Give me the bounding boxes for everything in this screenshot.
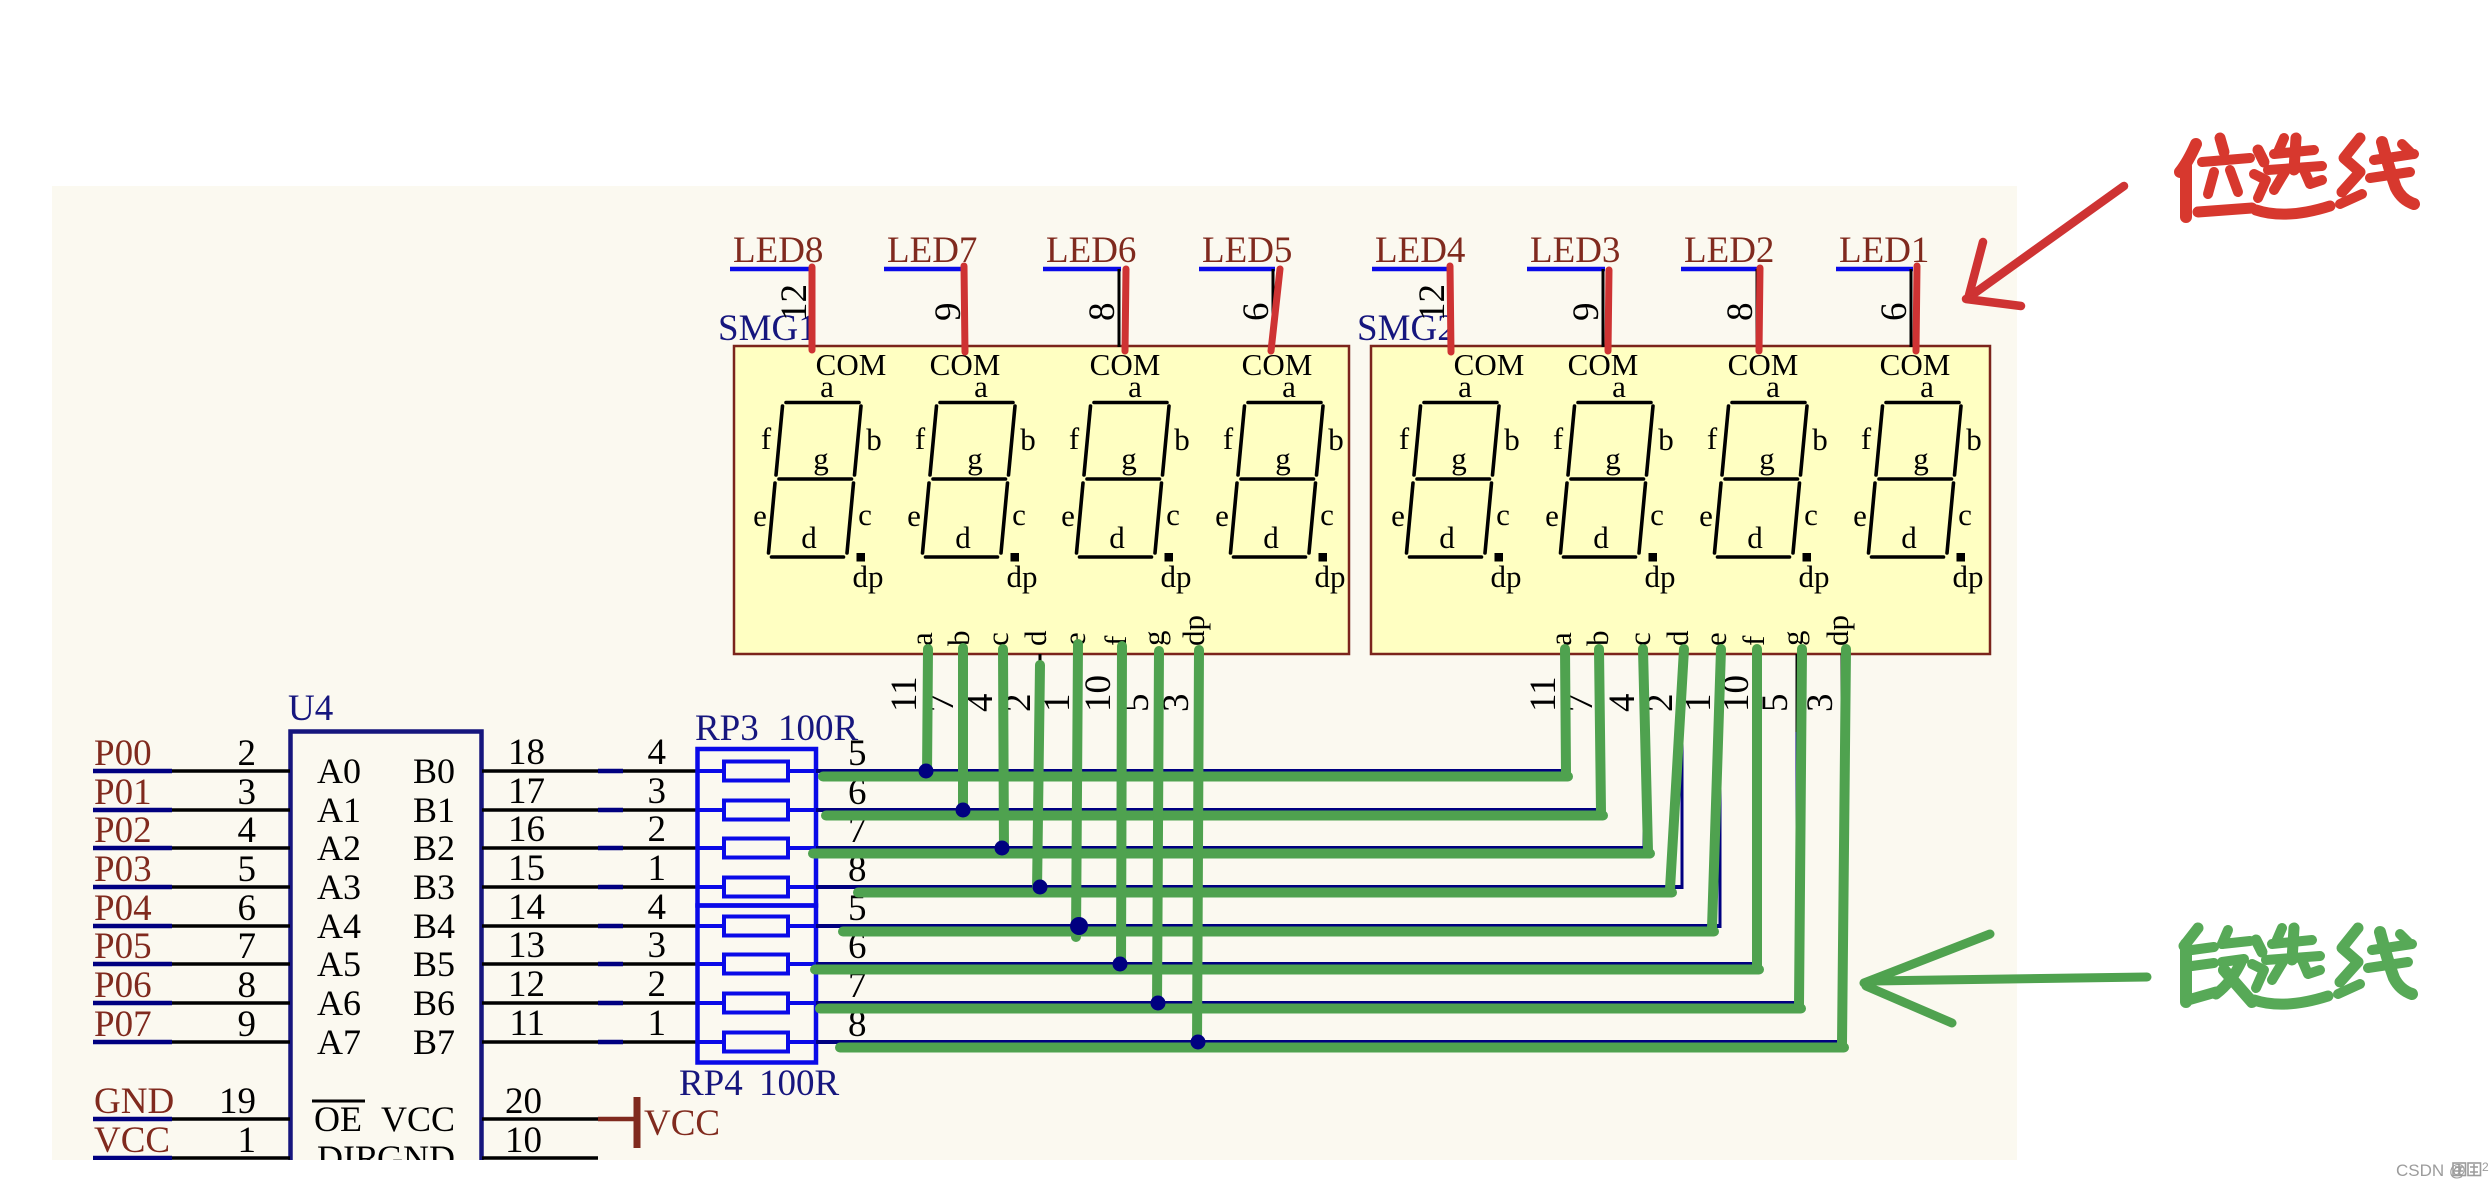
wire highlight red COM pin LED8: [809, 267, 816, 350]
wire highlight green row 5: [843, 927, 1714, 937]
svg-text:dp: dp: [1491, 559, 1522, 594]
pin stub c of SMG1: [1001, 654, 1004, 732]
resistor network RP4 body: [698, 906, 817, 1063]
pin stub g of SMG1: [1157, 654, 1160, 732]
svg-text:c: c: [1012, 497, 1026, 532]
svg-text:d: d: [1901, 520, 1917, 555]
pin stub d of SMG2: [1681, 654, 1684, 732]
svg-text:B2: B2: [413, 828, 455, 868]
svg-text:LED5: LED5: [1202, 230, 1292, 271]
svg-text:g: g: [1605, 441, 1621, 476]
svg-text:f: f: [915, 421, 926, 456]
svg-text:a: a: [904, 632, 939, 646]
svg-text:c: c: [1622, 632, 1657, 646]
svg-text:A4: A4: [317, 906, 361, 946]
svg-text:LED6: LED6: [1046, 230, 1136, 271]
svg-text:e: e: [907, 498, 921, 533]
svg-text:A1: A1: [317, 790, 361, 830]
wire U4 B1 to RP: [482, 808, 598, 812]
wire highlight red COM pin LED5: [1271, 269, 1280, 351]
svg-text:dp: dp: [1820, 615, 1855, 646]
svg-text:A5: A5: [317, 944, 361, 984]
pin stub f of SMG2: [1757, 654, 1760, 732]
wire COM pin LED6 vertical: [1118, 269, 1121, 347]
svg-text:a: a: [1282, 369, 1296, 404]
svg-text:a: a: [1766, 369, 1780, 404]
svg-text:3: 3: [238, 772, 257, 813]
svg-text:A0: A0: [317, 751, 361, 791]
svg-text:g: g: [1913, 441, 1929, 476]
resistor element RP3.1: [698, 769, 725, 773]
svg-text:f: f: [1736, 635, 1771, 646]
wire segment net row 6 horizontal: [816, 962, 1760, 966]
svg-text:GND: GND: [94, 1081, 174, 1122]
svg-text:f: f: [1553, 421, 1564, 456]
svg-text:B7: B7: [413, 1022, 455, 1062]
wire highlight green row 3: [813, 849, 1650, 859]
svg-text:4: 4: [648, 732, 667, 773]
annotation arrow red (bit-select): [1966, 186, 2124, 306]
seven-segment digit 3 with COM and segment labels: [1061, 347, 1191, 594]
wire P03 highlighted: [93, 885, 172, 890]
svg-text:e: e: [1853, 498, 1867, 533]
wire highlight green SMG1 pin g: [1157, 651, 1159, 1007]
svg-text:g: g: [1275, 441, 1291, 476]
svg-text:LED3: LED3: [1530, 230, 1620, 271]
svg-text:a: a: [1920, 369, 1934, 404]
wire highlight green SMG1 pin b: [958, 648, 968, 814]
wire U4 pin 20 to VCC port: [482, 1117, 598, 1121]
svg-text:d: d: [1747, 520, 1763, 555]
svg-text:16: 16: [508, 809, 545, 850]
svg-text:c: c: [980, 632, 1015, 646]
svg-text:a: a: [1128, 369, 1142, 404]
svg-text:d: d: [1660, 630, 1695, 646]
caption text duan-xuan-xian (green): [2184, 928, 2412, 1004]
svg-text:9: 9: [1566, 303, 1607, 322]
svg-text:B5: B5: [413, 944, 455, 984]
svg-text:9: 9: [238, 1004, 257, 1045]
wire COM pin LED3 vertical: [1602, 269, 1605, 347]
svg-text:a: a: [1543, 632, 1578, 646]
wire highlight red COM pin LED4: [1450, 266, 1451, 352]
wire highlight green SMG1 pin f: [1121, 646, 1122, 968]
junction node e row 5: [1070, 917, 1088, 935]
svg-text:3: 3: [648, 925, 667, 966]
svg-text:d: d: [1593, 520, 1609, 555]
wire P07 highlighted: [93, 1040, 172, 1045]
svg-text:P01: P01: [94, 772, 152, 813]
junction node a row 1: [919, 764, 934, 779]
page bottom mask: [0, 1160, 2491, 1184]
seven-segment digit 8 with COM and segment labels: [1853, 347, 1983, 594]
svg-text:P03: P03: [94, 849, 152, 890]
svg-text:2: 2: [2482, 1160, 2489, 1174]
wire U4 pin 10: [482, 1156, 598, 1160]
wire highlight green SMG2 pin a: [1565, 649, 1566, 773]
wire LED7 underline: [884, 267, 967, 272]
wire highlight red COM pin LED3: [1608, 270, 1609, 351]
svg-text:VCC: VCC: [644, 1103, 720, 1144]
svg-text:P04: P04: [94, 888, 152, 929]
wire U4 B5 to RP: [482, 962, 598, 966]
resistor element RP4.3: [698, 1001, 725, 1005]
svg-text:d: d: [1109, 520, 1125, 555]
wire highlight green SMG1 pin d: [1037, 665, 1040, 891]
seven-segment digit 4 with COM and segment labels: [1215, 347, 1345, 594]
svg-text:11: 11: [509, 1003, 545, 1044]
resistor network RP3 body: [698, 749, 817, 906]
svg-text:6: 6: [1236, 303, 1277, 322]
svg-text:dp: dp: [1315, 559, 1346, 594]
svg-text:b: b: [1580, 631, 1615, 647]
svg-text:f: f: [761, 421, 772, 456]
svg-text:c: c: [1804, 497, 1818, 532]
svg-text:11: 11: [1523, 676, 1564, 712]
svg-text:20: 20: [505, 1081, 542, 1122]
wire LED8 underline: [730, 267, 813, 272]
wire P06 to U4 pin 8: [172, 1001, 290, 1005]
pin stub b of SMG1: [962, 654, 965, 732]
svg-text:c: c: [1496, 497, 1510, 532]
wire SMG1 f down to row: [1119, 730, 1122, 964]
wire P00 to U4 pin 2: [172, 769, 290, 773]
svg-text:b: b: [1328, 422, 1344, 457]
pin stub e of SMG2: [1719, 654, 1722, 732]
wire U4 B6 to RP: [482, 1001, 598, 1005]
wire P01 highlighted: [93, 808, 172, 813]
svg-text:d: d: [1018, 630, 1053, 646]
wire segment net row 1 riser: [1564, 654, 1567, 771]
pin stub dp of SMG2: [1841, 654, 1844, 732]
wire segment net row 1 horizontal: [816, 769, 1567, 773]
junction node d row 4: [1033, 880, 1048, 895]
svg-text:18: 18: [508, 732, 545, 773]
svg-text:1: 1: [238, 1120, 257, 1161]
wire highlight green row 7: [820, 1004, 1801, 1014]
svg-text:g: g: [1136, 631, 1171, 647]
wire COM pin LED7 vertical: [964, 269, 967, 347]
svg-text:g: g: [1759, 441, 1775, 476]
resistor element RP4.4: [698, 1040, 725, 1044]
wire U4 B4 to RP: [482, 924, 598, 928]
svg-text:g: g: [967, 441, 983, 476]
svg-text:15: 15: [508, 848, 545, 889]
wire highlight green row 2: [826, 811, 1603, 821]
svg-text:e: e: [1061, 498, 1075, 533]
wire segment net row 4 horizontal: [816, 885, 1684, 889]
wire COM pin LED1 vertical: [1910, 269, 1913, 347]
svg-text:c: c: [1166, 497, 1180, 532]
wire highlight green SMG2 pin b: [1599, 649, 1601, 812]
svg-text:4: 4: [238, 810, 257, 851]
svg-text:f: f: [1861, 421, 1872, 456]
svg-text:1: 1: [648, 1003, 667, 1044]
wire LED4 underline: [1372, 267, 1451, 272]
pin stub a of SMG2: [1564, 654, 1567, 732]
wire P01 to U4 pin 3: [172, 808, 290, 812]
svg-text:10: 10: [505, 1120, 542, 1161]
svg-text:g: g: [813, 441, 829, 476]
wire U4 B3 to RP: [482, 885, 598, 889]
annotation arrow green (segment-select): [1864, 934, 2147, 1023]
wire highlight green SMG2 pin d: [1670, 649, 1684, 889]
svg-text:B3: B3: [413, 867, 455, 907]
wire VCC highlighted: [93, 1156, 172, 1161]
junction node b row 2: [956, 803, 971, 818]
svg-text:3: 3: [648, 771, 667, 812]
pin stub g of SMG2: [1796, 654, 1799, 732]
svg-text:4: 4: [1602, 694, 1643, 713]
svg-text:B0: B0: [413, 751, 455, 791]
power port VCC bar: [634, 1097, 641, 1148]
svg-text:A2: A2: [317, 828, 361, 868]
wire LED3 underline: [1527, 267, 1605, 272]
wire GND to U4 pin 19: [172, 1117, 290, 1121]
svg-text:g: g: [1451, 441, 1467, 476]
svg-text:6: 6: [1874, 303, 1915, 322]
svg-text:d: d: [955, 520, 971, 555]
svg-text:10: 10: [1078, 675, 1119, 712]
svg-text:f: f: [1223, 421, 1234, 456]
wire highlight green row 6: [815, 965, 1759, 975]
pin stub f of SMG1: [1119, 654, 1122, 732]
svg-text:d: d: [1439, 520, 1455, 555]
wire COM pin LED8 vertical: [810, 269, 813, 347]
wire segment net row 2 riser: [1601, 654, 1604, 810]
svg-text:P05: P05: [94, 926, 152, 967]
wire U4 B2 to RP: [482, 846, 598, 850]
svg-text:2: 2: [648, 964, 667, 1005]
svg-text:b: b: [866, 422, 882, 457]
svg-text:dp: dp: [1007, 559, 1038, 594]
pin stub b of SMG2: [1601, 654, 1604, 732]
svg-text:RP4: RP4: [679, 1063, 743, 1104]
seven-segment digit 7 with COM and segment labels: [1699, 347, 1829, 594]
wire COM pin LED5 vertical: [1272, 269, 1275, 347]
svg-text:d: d: [1263, 520, 1279, 555]
wire highlight green SMG2 pin g: [1799, 649, 1802, 1005]
wire LED5 underline: [1199, 267, 1275, 272]
svg-text:e: e: [1698, 632, 1733, 646]
junction node c row 3: [995, 841, 1010, 856]
svg-text:f: f: [1707, 421, 1718, 456]
svg-text:6: 6: [238, 888, 257, 929]
wire segment net row 5 riser: [1719, 654, 1722, 926]
seven-segment digit 6 with COM and segment labels: [1545, 347, 1675, 594]
svg-text:A3: A3: [317, 867, 361, 907]
wire highlight red COM pin LED6: [1125, 269, 1126, 351]
caption text wei-xuan-xian (red): [2180, 138, 2414, 217]
svg-text:A6: A6: [317, 983, 361, 1023]
svg-text:d: d: [801, 520, 817, 555]
svg-text:7: 7: [238, 926, 257, 967]
svg-text:e: e: [1391, 498, 1405, 533]
svg-text:e: e: [753, 498, 767, 533]
svg-text:c: c: [1320, 497, 1334, 532]
wire highlight green SMG2 pin dp: [1842, 649, 1846, 1044]
resistor element RP4.1: [698, 924, 725, 928]
wire segment net row 5 horizontal: [816, 924, 1722, 928]
wire highlight green SMG1 pin a: [927, 649, 928, 776]
svg-text:P02: P02: [94, 810, 152, 851]
wire segment net row 4 riser: [1681, 654, 1684, 887]
wire highlight green SMG2 pin f: [1752, 649, 1762, 966]
wire SMG1 dp down to row: [1197, 730, 1200, 1042]
wire P02 highlighted: [93, 846, 172, 851]
wire highlight green SMG2 pin e: [1712, 649, 1721, 928]
resistor element RP3.4: [698, 885, 725, 889]
resistor element RP4.2: [698, 962, 725, 966]
svg-text:e: e: [1545, 498, 1559, 533]
svg-text:dp: dp: [1799, 559, 1830, 594]
svg-text:dp: dp: [1953, 559, 1984, 594]
svg-text:12: 12: [508, 964, 545, 1005]
wire highlight green SMG1 pin e: [1076, 644, 1078, 937]
svg-text:dp: dp: [853, 559, 884, 594]
junction node f row 6: [1113, 957, 1128, 972]
svg-text:dp: dp: [1161, 559, 1192, 594]
svg-text:b: b: [1966, 422, 1982, 457]
svg-text:14: 14: [508, 887, 545, 928]
svg-text:2: 2: [238, 733, 257, 774]
svg-text:19: 19: [219, 1081, 256, 1122]
wire highlight red COM pin LED7: [964, 266, 965, 352]
svg-text:c: c: [1958, 497, 1972, 532]
wire SMG1 e down to row: [1078, 730, 1081, 926]
svg-text:11: 11: [884, 676, 925, 712]
svg-text:a: a: [820, 369, 834, 404]
wire P00 highlighted: [93, 769, 172, 774]
svg-text:8: 8: [1082, 303, 1123, 322]
wire segment net row 6 riser: [1757, 654, 1760, 964]
svg-text:b: b: [1020, 422, 1036, 457]
wire P04 to U4 pin 6: [172, 924, 290, 928]
wire P07 to U4 pin 9: [172, 1040, 290, 1044]
wire highlight green row 1: [823, 772, 1568, 782]
wire highlight green SMG1 pin c: [1003, 649, 1004, 853]
svg-text:OE: OE: [314, 1099, 362, 1139]
wire segment net row 7 horizontal: [816, 1001, 1799, 1005]
svg-text:2: 2: [648, 809, 667, 850]
wire P02 to U4 pin 4: [172, 846, 290, 850]
svg-text:e: e: [1699, 498, 1713, 533]
svg-text:g: g: [1775, 631, 1810, 647]
wire highlight green SMG2 pin c: [1643, 649, 1648, 851]
wire LED1 underline: [1836, 267, 1913, 272]
wire SMG1 g down to row: [1157, 730, 1160, 1003]
svg-text:COM: COM: [1568, 347, 1639, 382]
svg-text:g: g: [1121, 441, 1137, 476]
svg-text:e: e: [1215, 498, 1229, 533]
svg-text:B1: B1: [413, 790, 455, 830]
pin stub c of SMG2: [1643, 654, 1646, 732]
svg-text:b: b: [1658, 422, 1674, 457]
svg-text:A7: A7: [317, 1022, 361, 1062]
svg-text:f: f: [1069, 421, 1080, 456]
wire segment net row 7 riser: [1796, 654, 1799, 1003]
svg-text:c: c: [1650, 497, 1664, 532]
pin stub dp of SMG1: [1197, 654, 1200, 732]
wire segment net row 8 horizontal: [816, 1040, 1844, 1044]
pin stub e of SMG1: [1078, 654, 1081, 732]
schematic sheet background: [52, 186, 2017, 1160]
pin stub a of SMG1: [925, 654, 928, 732]
svg-text:RP3: RP3: [695, 708, 759, 749]
wire U4 B7 to RP: [482, 1040, 598, 1044]
svg-text:B4: B4: [413, 906, 455, 946]
wire P05 to U4 pin 7: [172, 962, 290, 966]
display module SMG2 body: [1371, 346, 1990, 654]
wire SMG1 a down to row: [925, 730, 928, 771]
svg-text:b: b: [1812, 422, 1828, 457]
wire segment net row 8 riser: [1841, 654, 1844, 1042]
svg-text:a: a: [1458, 369, 1472, 404]
svg-text:VCC: VCC: [381, 1099, 455, 1139]
svg-text:VCC: VCC: [94, 1120, 170, 1161]
svg-text:COM: COM: [1728, 347, 1799, 382]
wire highlight green SMG1 pin dp: [1197, 650, 1199, 1046]
svg-text:B6: B6: [413, 983, 455, 1023]
svg-text:U4: U4: [288, 688, 333, 729]
wire COM pin LED4 vertical: [1448, 269, 1451, 347]
svg-text:f: f: [1098, 635, 1133, 646]
svg-text:13: 13: [508, 925, 545, 966]
svg-text:dp: dp: [1176, 615, 1211, 646]
wire SMG1 b down to row: [962, 730, 965, 810]
wire SMG1 d down to row: [1039, 730, 1042, 887]
wire P03 to U4 pin 5: [172, 885, 290, 889]
svg-text:P00: P00: [94, 733, 152, 774]
wire LED6 underline: [1043, 267, 1121, 272]
svg-text:dp: dp: [1645, 559, 1676, 594]
svg-text:b: b: [1174, 422, 1190, 457]
wire highlight green row 4: [858, 888, 1672, 898]
seven-segment digit 2 with COM and segment labels: [907, 347, 1037, 594]
wire highlight green row 8: [840, 1043, 1844, 1053]
wire segment net row 3 riser: [1643, 654, 1646, 848]
svg-text:a: a: [974, 369, 988, 404]
resistor element RP3.3: [698, 846, 725, 850]
svg-text:17: 17: [508, 771, 545, 812]
wire segment net row 2 horizontal: [816, 808, 1604, 812]
svg-text:P06: P06: [94, 965, 152, 1006]
wire SMG1 c down to row: [1001, 730, 1004, 848]
svg-text:100R: 100R: [778, 708, 859, 749]
wire COM pin LED2 vertical: [1756, 269, 1759, 347]
pin stub d of SMG1: [1039, 654, 1042, 732]
svg-text:f: f: [1399, 421, 1410, 456]
wire highlight red COM pin LED1: [1916, 266, 1917, 351]
wire P05 highlighted: [93, 962, 172, 967]
wire GND highlighted: [93, 1117, 172, 1122]
svg-text:COM: COM: [1242, 347, 1313, 382]
svg-text:5: 5: [238, 849, 257, 890]
wire U4 B0 to RP: [482, 769, 598, 773]
svg-text:b: b: [1504, 422, 1520, 457]
svg-text:c: c: [858, 497, 872, 532]
display module SMG1 body: [734, 346, 1349, 654]
wire segment net row 3 horizontal: [816, 846, 1646, 850]
IC U4 body: [291, 732, 482, 1184]
svg-text:P07: P07: [94, 1004, 152, 1045]
svg-text:100R: 100R: [759, 1063, 840, 1104]
junction node g row 7: [1151, 996, 1166, 1011]
svg-text:1: 1: [648, 848, 667, 889]
svg-text:8: 8: [238, 965, 257, 1006]
svg-text:8: 8: [1720, 303, 1761, 322]
wire LED2 underline: [1681, 267, 1759, 272]
